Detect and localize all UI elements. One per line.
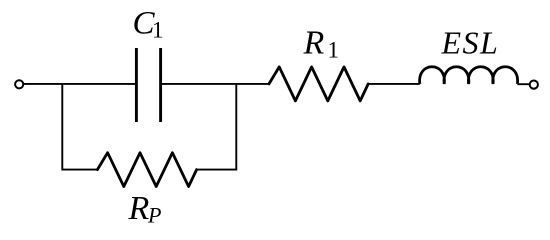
svg-text:1: 1 (152, 18, 164, 43)
svg-text:ESL: ESL (441, 25, 500, 61)
right terminal (530, 81, 538, 89)
label RP (128, 190, 162, 228)
node A: left junction drop (62, 84, 97, 170)
inductor ESL (420, 67, 518, 84)
resistor R1 (269, 67, 368, 101)
svg-text:P: P (147, 203, 161, 228)
node B: right junction drop (197, 84, 237, 170)
svg-text:1: 1 (328, 38, 340, 63)
left terminal (15, 80, 23, 88)
svg-text:R: R (303, 25, 325, 62)
wire: capacitor right plate to R1 (162, 83, 269, 85)
svg-text:R: R (128, 190, 150, 227)
resistor RP (97, 153, 196, 187)
wire: R1 to inductor (368, 83, 420, 85)
wire: inductor to right terminal (517, 83, 529, 85)
wire: left terminal to capacitor left plate (24, 83, 135, 85)
label C1 (133, 6, 164, 43)
capacitor C1 (136, 48, 160, 122)
label R1 (303, 25, 340, 63)
